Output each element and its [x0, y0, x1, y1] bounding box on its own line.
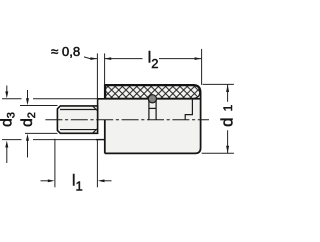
internal step [185, 99, 192, 120]
d1 bottom arrow [226, 146, 229, 153]
dim approx 0,8 leader [84, 57, 97, 59]
collar face (upper half only) [97, 98, 99, 120]
ext line B (knob face, for 0,8 / l2) [104, 53, 106, 85]
l1 ext left [54, 139, 56, 188]
l1 dim left [41, 180, 49, 182]
thread runout bottom [93, 129, 97, 133]
d1 dim line bottom [227, 130, 229, 153]
body face lower half [104, 120, 106, 154]
d2 bottom arrow [27, 140, 29, 158]
svg-text:≈ 0,8: ≈ 0,8 [51, 44, 80, 59]
d2 ext top [20, 105, 58, 107]
pin slot right wall [155, 99, 157, 119]
d1 top arrow [226, 85, 229, 92]
d3 ext top [2, 98, 22, 100]
dim line l2 left segment [104, 58, 142, 60]
thread minor line bottom [60, 129, 97, 131]
l2 left arrow [104, 57, 111, 60]
d1 ext line top [203, 83, 234, 85]
d3 bottom arrow [6, 147, 8, 163]
d1 ext line bottom [202, 152, 234, 154]
knob body fill with collar protrusion [98, 85, 201, 153]
d2 top arrow [27, 90, 29, 100]
dim line l2 right segment [159, 58, 201, 60]
d3 top arrow [6, 86, 8, 94]
ext line A (bushing face, for 0,8) [96, 53, 98, 99]
knurled band bottom line [98, 98, 201, 100]
ext line l2 right [201, 49, 203, 85]
d2 ext bottom [25, 132, 58, 134]
band left edge [104, 84, 106, 99]
dim approx 0,8 arrow [90, 57, 97, 60]
l1 dim right [104, 180, 112, 182]
knurled band hatch [106, 86, 200, 99]
knob body outline (top, right, bottom) [105, 85, 201, 153]
d1 dim line top [227, 85, 229, 102]
l1 ext right [96, 140, 98, 188]
thread runout top [93, 106, 97, 110]
d3 ext bottom [2, 139, 22, 141]
threaded stud [57, 106, 97, 133]
thread minor line top [60, 109, 97, 111]
pin slot left wall [148, 99, 150, 119]
l2 right arrow [195, 57, 202, 60]
pin dot [148, 95, 156, 103]
centerline [45, 119, 209, 121]
pin slot rung [149, 107, 156, 109]
